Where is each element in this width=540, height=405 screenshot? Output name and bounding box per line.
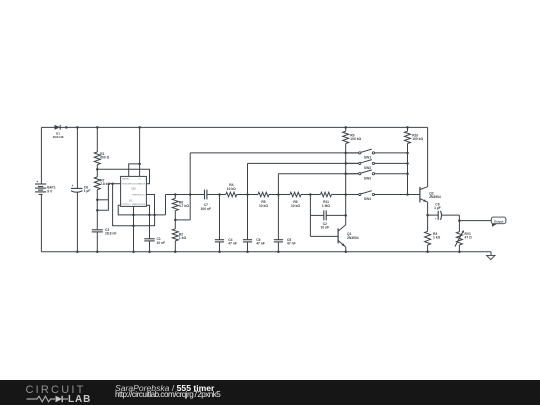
resistor R6 10k <box>290 192 301 208</box>
node C8 ground rail <box>76 250 79 253</box>
node GND bus <box>132 214 135 217</box>
svg-text:1 kΩ: 1 kΩ <box>179 236 187 240</box>
svg-text:100 nF: 100 nF <box>201 207 211 211</box>
svg-text:RESET: RESET <box>122 179 130 181</box>
node control bus <box>148 214 151 217</box>
wire R8 bottom loop <box>175 219 190 221</box>
capacitor C3 28.8nF <box>92 228 117 236</box>
resistor R1 600 <box>94 152 109 165</box>
svg-text:V+: V+ <box>139 179 142 181</box>
node SW2 tap main <box>246 193 249 196</box>
wire battery top <box>40 127 42 184</box>
node V+ top rail <box>138 126 141 128</box>
switch SW3 <box>346 170 408 181</box>
node C3 ground rail <box>96 250 99 253</box>
svg-text:+: + <box>435 216 437 220</box>
svg-text:OUTPUT: OUTPUT <box>121 204 131 206</box>
node output tap <box>458 219 461 222</box>
node C2 right <box>344 214 347 217</box>
node R9 top rail <box>344 126 347 128</box>
wire riser SW1 tap <box>189 153 191 220</box>
capacitor C1 10nF <box>144 237 165 245</box>
battery BAT1 9V <box>35 180 56 194</box>
node SW3 tap main <box>277 193 280 196</box>
resistor R9 100k <box>343 131 362 143</box>
node SW1 tap main <box>189 193 192 196</box>
node R2 rail <box>174 250 177 253</box>
potentiometer RV1 47 <box>455 230 472 247</box>
wire Q2 base <box>408 194 420 196</box>
node R8 top <box>174 193 177 196</box>
wire C4 drop <box>219 195 221 240</box>
svg-text:100 kΩ: 100 kΩ <box>412 137 423 141</box>
svg-text:SW4: SW4 <box>364 197 371 201</box>
svg-text:U1: U1 <box>129 199 133 203</box>
node top-rail dot <box>65 126 68 128</box>
capacitor C4 47nF <box>215 238 237 246</box>
wire main line c <box>237 194 258 196</box>
switch SW2 <box>346 160 408 170</box>
wire C9 right <box>441 214 459 216</box>
wire R9 stub <box>345 127 347 131</box>
wire R3 to rail <box>427 245 429 252</box>
svg-text:1 µF: 1 µF <box>434 206 441 210</box>
svg-text:47 Ω: 47 Ω <box>465 235 473 239</box>
wire output lead <box>459 220 491 222</box>
diode D1 1N4148 <box>53 125 64 139</box>
switch SW1 <box>346 149 408 159</box>
CircuitLab logo <box>26 380 106 405</box>
svg-text:SW1: SW1 <box>364 155 371 159</box>
node trigger loop top <box>96 199 99 202</box>
svg-text:47 nF: 47 nF <box>287 242 296 246</box>
transistor Q1 2N3904 <box>338 225 359 247</box>
svg-text:10 kΩ: 10 kΩ <box>259 204 268 208</box>
wire C4 to rail <box>219 242 221 252</box>
node R8 bottom junction <box>174 219 177 222</box>
wire Q1 base wire <box>310 235 338 237</box>
node Q1 emitter rail <box>345 250 348 253</box>
wire reset tie <box>129 164 140 176</box>
wire switch column right <box>407 144 409 195</box>
node swr row1 <box>406 152 409 155</box>
wire R3 top <box>427 215 429 231</box>
svg-text:1N4148: 1N4148 <box>53 135 64 139</box>
wire Q2 emitter <box>427 202 429 215</box>
wire Q1 emitter <box>345 247 347 252</box>
node C4 rail <box>218 250 221 253</box>
wire jumper row2 <box>248 162 359 164</box>
wire C5 to rail <box>247 242 249 252</box>
node swr row3 <box>406 172 409 175</box>
svg-text:4.7 kΩ: 4.7 kΩ <box>179 204 189 208</box>
wire R2 to rail <box>174 241 176 252</box>
node swl row3 <box>344 172 347 175</box>
wire C2 drop <box>309 195 311 237</box>
wire main line b <box>207 194 226 196</box>
node C1 rail <box>148 250 151 253</box>
capacitor C8 1uF <box>71 184 90 193</box>
node R1-R7 junction <box>96 168 99 171</box>
svg-text:100 kΩ: 100 kΩ <box>350 137 361 141</box>
resistor R4 10k <box>226 183 237 197</box>
svg-text:Output: Output <box>494 219 504 223</box>
wire main line d <box>269 194 290 196</box>
svg-text:555: 555 <box>131 187 136 191</box>
node swl main <box>344 193 347 196</box>
wire C2 left <box>310 214 323 216</box>
capacitor C6 47nF <box>274 238 296 246</box>
resistor R11 1M <box>321 192 332 208</box>
wire RV1 to rail <box>458 245 460 252</box>
svg-text:10 nF: 10 nF <box>157 241 166 245</box>
node C8 top rail <box>76 126 79 128</box>
ground <box>487 252 495 260</box>
node C2 main <box>309 193 312 196</box>
wire main line a <box>166 194 205 196</box>
svg-text:28.8 nF: 28.8 nF <box>105 232 116 236</box>
wire C9 left <box>428 214 438 216</box>
wire C8 top <box>76 127 78 188</box>
capacitor C7 100nF <box>201 190 211 211</box>
svg-text:47 nF: 47 nF <box>228 242 237 246</box>
wire V+ drop <box>139 127 141 176</box>
wire R1-R7 link <box>96 165 98 177</box>
svg-text:2N3904: 2N3904 <box>347 236 359 240</box>
svg-text:TRIGGER: TRIGGER <box>122 184 132 186</box>
wire RV1 riser <box>458 215 460 232</box>
node reset-V+ junction <box>138 163 141 166</box>
logo wire doodle <box>26 396 68 402</box>
wire top supply rail <box>41 126 427 128</box>
resistor R10 100k <box>405 131 424 143</box>
node swl row2 <box>344 162 347 165</box>
wire output loop <box>118 205 165 215</box>
svg-text:SW3: SW3 <box>364 177 371 181</box>
flag Output <box>491 217 506 227</box>
wire jumper row1 <box>190 152 359 154</box>
node swr row2 <box>406 162 409 165</box>
svg-text:THRESHOLD: THRESHOLD <box>132 195 146 197</box>
wire R7 to C3 <box>96 190 98 230</box>
node C4 main <box>218 193 221 196</box>
svg-text:1 kΩ: 1 kΩ <box>433 235 441 239</box>
node Q2 emitter junction <box>426 214 429 217</box>
svg-text:+: + <box>36 180 38 184</box>
node swl row1 <box>344 152 347 155</box>
wire switch column left <box>345 144 347 225</box>
resistor R7 7.8k <box>94 177 110 190</box>
node trigger loop bottom <box>96 209 99 212</box>
wire main line e <box>301 194 321 196</box>
svg-text:CONTROL: CONTROL <box>135 204 146 206</box>
resistor R8 4.7k <box>172 198 189 210</box>
capacitor C2 10nF <box>320 210 329 229</box>
resistor R5 10k <box>258 192 269 208</box>
svg-text:SW2: SW2 <box>364 166 371 170</box>
svg-text:+: + <box>72 184 74 188</box>
wire trigger feedback drop <box>113 184 155 226</box>
wire R1 top <box>96 127 98 152</box>
wire threshold stub <box>146 195 154 215</box>
svg-text:600 Ω: 600 Ω <box>100 156 109 160</box>
capacitor C9 1uF <box>434 202 441 220</box>
transistor Q2 2N3904 <box>420 187 441 203</box>
svg-text:10 nF: 10 nF <box>320 226 329 230</box>
wire R8-R2 link <box>174 211 176 229</box>
node R1 top rail <box>96 126 99 128</box>
wire discharge loop <box>97 169 149 183</box>
svg-text:10 kΩ: 10 kΩ <box>291 204 300 208</box>
node R10 top rail <box>406 126 409 128</box>
node R3 rail <box>426 250 429 253</box>
wire R8 top stub <box>174 195 176 199</box>
svg-text:10 kΩ: 10 kΩ <box>227 187 236 191</box>
wire jumper row3 <box>278 173 358 175</box>
resistor R2 1k <box>172 229 186 241</box>
node threshold bus <box>153 214 156 217</box>
wire bus riser <box>165 195 167 215</box>
wire battery bottom <box>40 194 42 251</box>
wire riser SW3 tap <box>277 174 279 240</box>
node trigger drop <box>111 182 114 185</box>
wire Q2 collector drop <box>427 127 429 186</box>
node C5 rail <box>246 250 249 253</box>
svg-text:47 nF: 47 nF <box>256 242 265 246</box>
svg-text:9 V: 9 V <box>47 189 53 193</box>
wire C6 to rail <box>277 242 279 252</box>
node RV1 rail <box>458 250 461 253</box>
wire control stub <box>146 205 149 238</box>
wire main line f <box>332 194 359 196</box>
wire C2 right <box>326 214 345 216</box>
svg-text:2N3904: 2N3904 <box>429 195 441 199</box>
node swr main <box>406 193 409 196</box>
node C6 rail <box>277 250 280 253</box>
wire C8 bottom <box>76 192 78 252</box>
wire C3 to rail <box>96 232 98 252</box>
resistor R3 1k <box>425 231 441 245</box>
wire trigger loop <box>97 184 108 211</box>
wire R10 stub <box>407 127 409 131</box>
wire GND stub <box>133 206 135 252</box>
node GND cross <box>132 225 135 228</box>
switch SW4 <box>359 191 408 201</box>
wire riser SW2 tap <box>247 163 249 239</box>
node GND rail <box>132 250 135 253</box>
wire C1 to rail <box>149 241 151 252</box>
wire trigger <box>108 183 120 185</box>
op-amp U1 555 timer <box>121 176 147 206</box>
svg-text:1 µF: 1 µF <box>84 189 91 193</box>
svg-text:1 MΩ: 1 MΩ <box>322 204 330 208</box>
capacitor C5 47nF <box>243 238 265 246</box>
svg-text:DISCHARGE: DISCHARGE <box>132 183 146 186</box>
wire bottom ground rail <box>41 251 491 253</box>
